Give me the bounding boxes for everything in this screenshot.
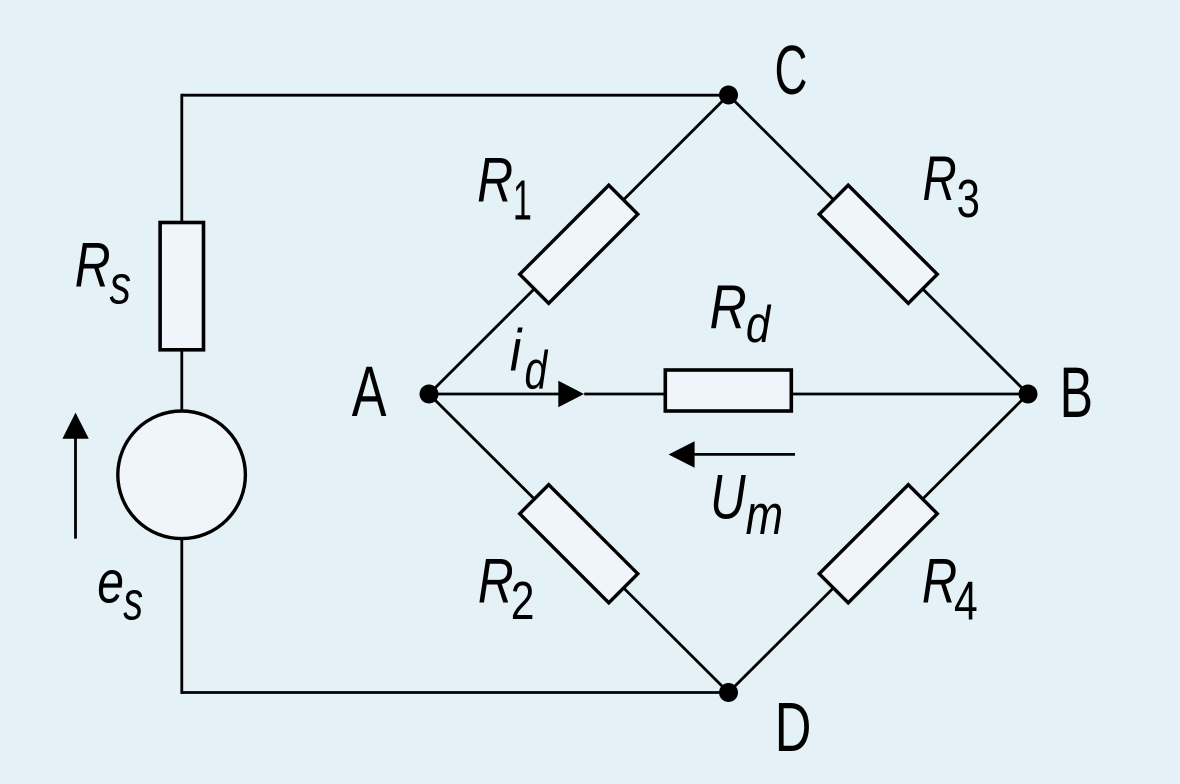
svg-text:i: i	[510, 317, 523, 383]
wire branch A-D	[429, 394, 729, 693]
wire left rail upper segment	[180, 94, 183, 223]
svg-text:R: R	[75, 230, 111, 301]
node A	[420, 385, 439, 404]
wire top rail	[182, 94, 729, 97]
wire bridge Rd to B	[790, 393, 1028, 396]
svg-text:3: 3	[957, 169, 980, 229]
svg-text:d: d	[746, 296, 771, 353]
label R3	[923, 143, 980, 229]
resistor R2	[520, 485, 638, 603]
svg-text:R: R	[478, 547, 514, 617]
svg-text:R: R	[477, 146, 513, 216]
svg-text:R: R	[922, 546, 957, 616]
label id	[510, 317, 548, 401]
node C	[719, 86, 738, 105]
resistor Rs	[160, 223, 203, 350]
svg-text:4: 4	[954, 570, 978, 631]
current arrow id	[558, 381, 584, 408]
svg-text:D: D	[775, 688, 812, 766]
wire bridge A to id arrow	[429, 393, 559, 396]
svg-text:m: m	[746, 483, 784, 546]
label R1	[477, 146, 532, 232]
resistor Rd	[665, 370, 791, 411]
label Um	[710, 461, 783, 546]
svg-text:2: 2	[511, 571, 535, 631]
label Rs	[75, 230, 131, 316]
svg-text:s: s	[110, 254, 131, 315]
svg-text:U: U	[710, 461, 747, 531]
label es	[97, 549, 143, 633]
svg-text:R: R	[710, 273, 747, 343]
wire source circle to bottom rail	[180, 538, 183, 694]
node D	[719, 683, 738, 702]
source es circle	[118, 411, 246, 539]
label R2	[478, 547, 535, 631]
svg-text:d: d	[525, 341, 549, 401]
resistor R3	[819, 185, 937, 303]
wire branch D-B	[729, 394, 1029, 693]
wire branch A-C	[429, 95, 729, 394]
wire bridge id arrow tip to Rd	[584, 393, 666, 396]
svg-text:e: e	[97, 549, 124, 616]
svg-text:1: 1	[513, 167, 532, 231]
svg-text:A: A	[352, 353, 387, 432]
resistor R4	[819, 485, 937, 603]
arrow for es	[62, 413, 88, 539]
wire bottom rail	[182, 691, 729, 694]
node B	[1019, 385, 1038, 404]
svg-text:R: R	[923, 143, 957, 213]
svg-text:C: C	[775, 31, 808, 109]
svg-text:B: B	[1060, 354, 1093, 434]
arrow Um	[669, 441, 796, 468]
label Rd	[710, 273, 772, 354]
wire branch C-B	[729, 95, 1029, 394]
wire Rs to source circle	[180, 348, 183, 412]
label R4	[922, 546, 978, 632]
svg-text:s: s	[123, 571, 143, 632]
resistor R1	[520, 185, 638, 303]
